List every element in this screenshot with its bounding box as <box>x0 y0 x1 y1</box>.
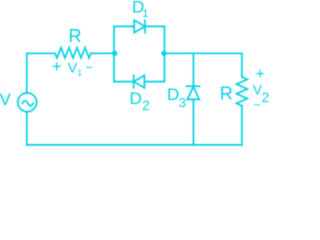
svg-text:D: D <box>130 89 142 108</box>
diode D1 triangle <box>134 20 145 32</box>
svg-text:1: 1 <box>142 8 148 20</box>
wire: D1 anode wire <box>114 25 134 27</box>
source sine tilde <box>22 101 33 106</box>
svg-text:+: + <box>52 58 62 76</box>
wire: source bottom to bottom-left corner <box>26 112 28 145</box>
wire: D1 cathode wire <box>145 25 164 27</box>
wire: bridge left vertical <box>113 26 115 81</box>
svg-text:V: V <box>68 59 78 75</box>
wire: bridge right vertical <box>163 26 165 81</box>
wire: D3 top lead <box>192 53 194 86</box>
wire: node B to top-right corner <box>164 52 242 54</box>
wire: D2 cathode wire <box>114 81 134 83</box>
svg-text:+: + <box>256 66 265 83</box>
svg-text:2: 2 <box>142 98 150 113</box>
svg-text:D: D <box>167 85 179 104</box>
wire: right vertical lower lead <box>241 106 243 145</box>
wire: right vertical upper lead <box>241 53 243 77</box>
wire: top-left corner to source top (left rail upper) <box>27 53 55 93</box>
wire: D3 bottom lead <box>192 100 194 145</box>
wire: D2 anode wire <box>144 81 164 83</box>
diode D3 cathode bar <box>186 85 199 87</box>
resistor R (series) zigzag <box>55 48 91 58</box>
svg-text:3: 3 <box>179 95 186 110</box>
svg-text:1: 1 <box>77 67 82 77</box>
wire: bottom rail <box>27 144 242 146</box>
svg-text:2: 2 <box>262 89 270 105</box>
svg-text:V: V <box>0 90 12 109</box>
svg-text:−: − <box>86 61 93 75</box>
source V1 AC circle <box>18 93 37 112</box>
node B junction dot <box>161 51 166 56</box>
resistor R (load) zigzag <box>237 77 248 106</box>
diode D2 cathode bar <box>133 75 135 87</box>
svg-text:−: − <box>254 98 261 112</box>
svg-text:R: R <box>220 84 233 104</box>
node A junction dot <box>112 51 117 56</box>
svg-text:R: R <box>69 26 82 46</box>
diode D3 triangle <box>187 87 199 100</box>
diode D1 cathode bar <box>144 20 146 32</box>
wire: resistor to node A <box>91 52 114 54</box>
diode D2 triangle <box>134 75 145 87</box>
